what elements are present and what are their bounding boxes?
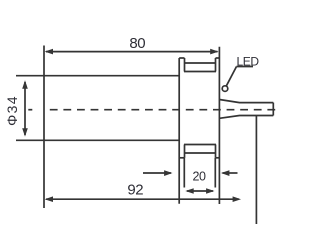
svg-text:80: 80: [129, 35, 145, 52]
svg-text:92: 92: [127, 182, 143, 199]
svg-text:Φ34: Φ34: [4, 95, 20, 126]
svg-text:20: 20: [192, 170, 206, 184]
svg-text:LED: LED: [237, 54, 260, 68]
